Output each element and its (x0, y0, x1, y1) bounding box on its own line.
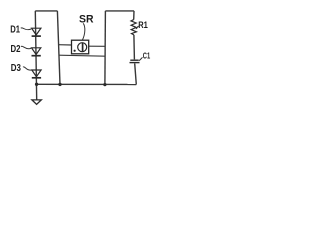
diode D3 (32, 70, 41, 78)
label pointer D2 (21, 46, 31, 49)
wire right vertical above R1 (133, 11, 135, 20)
SR inner bar (82, 43, 84, 52)
wire lower lead under SR box (59, 55, 105, 56)
svg-text:SR: SR (79, 13, 94, 25)
terminal arrow (down) at bottom of diode chain (32, 100, 41, 104)
wire top-right rail (105, 10, 134, 12)
svg-text:D3: D3 (11, 63, 22, 74)
svg-text:C1: C1 (143, 51, 151, 61)
label pointer R1 (136, 26, 139, 28)
resistor R1 zigzag (131, 20, 136, 35)
node junction dot middle (bottom rail / middle vertical) (58, 83, 61, 86)
wire mid-right vertical (104, 11, 107, 85)
svg-text:D2: D2 (11, 44, 21, 55)
svg-text:D1: D1 (10, 25, 20, 36)
SR inner terminal dot (74, 50, 76, 52)
label pointer D3 (23, 67, 32, 70)
capacitor C1 bottom plate (130, 62, 140, 64)
node junction dot left (bottom rail / diode chain) (35, 83, 38, 86)
wire bottom rail (37, 83, 137, 85)
wire SR box left lead (58, 44, 71, 46)
SR inner circle (78, 43, 87, 52)
diode D1 (32, 28, 41, 36)
box SR (device outline) (72, 40, 89, 54)
wire middle vertical (57, 11, 60, 85)
capacitor C1 top plate (130, 59, 138, 61)
wire right vertical below C1 (135, 63, 137, 84)
label pointer D1 (21, 28, 31, 30)
wire left vertical (diode chain) (35, 11, 36, 100)
label pointer C1 (139, 57, 143, 60)
diode D2 (32, 48, 41, 56)
wire top-left rail (35, 10, 57, 12)
label pointer SR (82, 23, 84, 40)
wire SR box right lead (89, 45, 106, 47)
node junction dot right (bottom rail / mid-right vertical) (103, 83, 106, 86)
svg-text:R1: R1 (138, 20, 148, 30)
wire right vertical between R1 and C1 (133, 35, 136, 60)
